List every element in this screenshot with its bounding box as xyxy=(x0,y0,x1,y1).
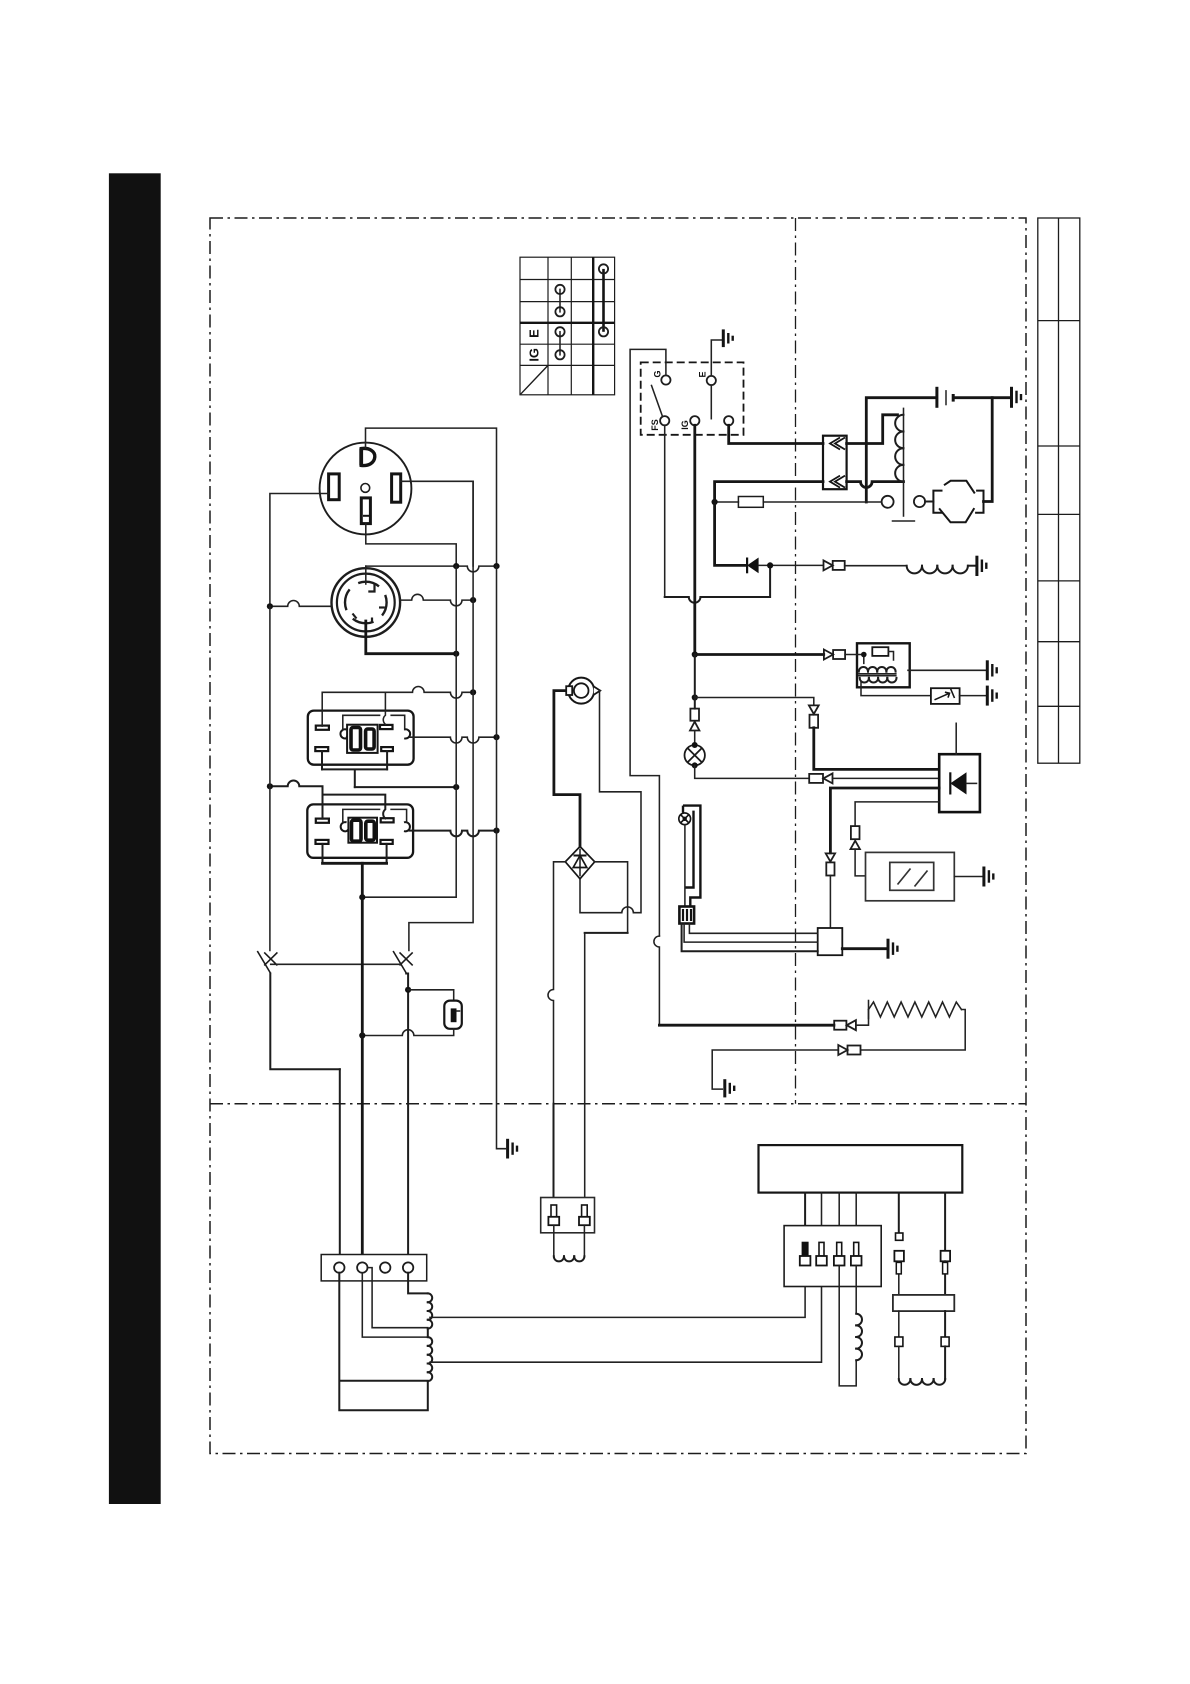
wire battery to ground xyxy=(955,396,1010,399)
dynamo MG (brush motor) xyxy=(568,678,594,704)
R2 internal test loop xyxy=(343,809,407,822)
receptacle J1 (120/240V 4-prong) body xyxy=(320,443,412,535)
IG vertical to lamp connector xyxy=(694,655,696,709)
E internal stub xyxy=(710,385,712,419)
wire connector to CDI xyxy=(833,777,940,779)
connector pins xyxy=(800,1242,862,1265)
terminal FS xyxy=(660,416,669,425)
ground G2 (battery) xyxy=(1012,387,1022,408)
R1 bottom bus and drop xyxy=(322,769,387,787)
table contact link col4 rows1-4 (thick) xyxy=(602,269,605,332)
R1 bottom-left T xyxy=(315,747,328,769)
svg-text:IG: IG xyxy=(527,348,542,362)
R2 top-left slot xyxy=(316,819,329,823)
junction dot J2 right to trunk xyxy=(470,597,476,603)
4P connector box xyxy=(784,1226,881,1287)
wire TB1-2 to stator tap xyxy=(362,1273,428,1337)
bullet connector (CDI exciter lead) xyxy=(824,650,845,660)
wire diode box to ground xyxy=(960,695,986,697)
bridge rectifier BR1 xyxy=(565,847,594,879)
junction dot diode output xyxy=(767,562,773,568)
ground G6 (diode box) xyxy=(987,686,996,706)
starter motor M xyxy=(933,481,983,522)
R2 bottom-right T xyxy=(381,840,393,863)
wire gauge to ground xyxy=(954,876,982,878)
oil level switch body xyxy=(683,806,700,907)
junction dot J2 bottom xyxy=(453,651,459,657)
receptacle J2 (twist lock) outer rings xyxy=(332,568,401,637)
J1 pilot hole xyxy=(361,484,370,493)
inline connector (box + triangle left) xyxy=(809,773,832,783)
R2 top-right slot xyxy=(381,818,394,822)
wire CB1 out (thick L) xyxy=(270,974,340,1070)
stator output tap lower (long) xyxy=(430,1266,822,1363)
wire E to ground xyxy=(711,340,721,376)
table contact link col2 rows4-5 xyxy=(559,332,561,355)
ground G1 (key switch) xyxy=(723,329,732,347)
wire R1 top feed line (hops) xyxy=(322,687,473,727)
junction dot trunk A to R2 trunk xyxy=(359,894,365,900)
terminal IG xyxy=(690,416,699,425)
wire coil to ground xyxy=(968,565,975,567)
J2 contact hooks xyxy=(353,584,385,622)
page margin black sidebar xyxy=(109,173,161,1504)
terminal G xyxy=(661,375,670,384)
R1 left hook xyxy=(340,729,347,738)
switch blade G-FS xyxy=(652,386,663,416)
fuse F1 xyxy=(738,497,763,508)
wire connector to lamp xyxy=(694,731,696,745)
wire module to ground upper xyxy=(908,669,985,671)
thermal breaker block xyxy=(893,1295,954,1311)
inline connector (triangle down + box) on oil interlock xyxy=(826,853,835,875)
wire connector down to interlock junction box xyxy=(829,876,831,929)
bullet connector (triangle-box) on charge coil lead xyxy=(824,560,845,570)
R2 trunk down (x=362) xyxy=(361,863,364,1262)
wire R1 drop to trunk xyxy=(355,786,456,788)
J1 left slot xyxy=(329,474,340,500)
J2 inner contact ring (segmented) xyxy=(345,582,387,624)
trunk wire B (x=473) to breaker CB2 xyxy=(409,481,473,950)
frame: vertical dash-dot partition line xyxy=(795,218,797,1104)
reset button SW2 xyxy=(444,1001,462,1029)
diode D1 xyxy=(747,558,759,574)
wire CDI sense to oil gauge lead xyxy=(855,802,939,826)
inline connector (triangle down + box) xyxy=(809,705,819,727)
terminal B (unlabeled) xyxy=(724,416,733,425)
wire rectifier right output to 2P connector xyxy=(595,862,628,933)
sub winding on pin4 lead xyxy=(855,1266,857,1314)
wire J1 bottom slot xyxy=(366,524,456,567)
connector block (double chevron) xyxy=(823,436,847,490)
wire J2 left pin xyxy=(270,601,332,607)
svg-text:IG: IG xyxy=(680,420,690,430)
breaker tie line xyxy=(271,963,401,965)
module feed drop xyxy=(845,655,864,664)
R2 right hook xyxy=(404,822,410,831)
ground G8 (junction box) xyxy=(888,939,897,959)
GFCI receptacle R2 body xyxy=(307,804,413,857)
wire IG to CDI feed connector (thick) xyxy=(695,653,824,656)
wire TB1-4 to stator top xyxy=(408,1273,428,1294)
switch position table grid xyxy=(520,257,615,395)
breaker outputs xyxy=(898,1311,900,1337)
R1 contact block xyxy=(347,725,378,753)
ignition exciter module box xyxy=(857,643,910,687)
battery BAT xyxy=(937,387,953,408)
oil level gauge box xyxy=(866,852,955,900)
junction dot J2 left xyxy=(267,603,273,609)
R1 top-center feed (hops internal loop) xyxy=(383,692,385,724)
wire diode to connector xyxy=(759,564,823,566)
legend table (right side, 7 rows x 2 cols) xyxy=(1038,218,1080,763)
switch table diagonal cell xyxy=(521,366,548,394)
switch table thick column line xyxy=(592,257,594,395)
wire FS down and right to diode junction xyxy=(664,425,666,597)
wire chevron bottom to coil base (hop over battery lead) xyxy=(847,482,904,488)
key switch SW1 dashed outline xyxy=(641,362,744,434)
oil switch float screw xyxy=(679,813,691,825)
diode box D2 xyxy=(931,688,960,704)
R2 right hook out thick (hops) xyxy=(410,831,497,837)
J1 bottom slot xyxy=(361,498,370,524)
breaker CB2 xyxy=(393,951,413,974)
wire battery row left xyxy=(866,398,935,502)
module primary resistor xyxy=(872,647,888,656)
J1 right slot xyxy=(392,474,401,502)
junction dot button return xyxy=(359,1032,365,1038)
oil switch junction box xyxy=(818,928,843,955)
wire chevron-lower feed down to diode row xyxy=(715,482,823,566)
inline connector (box + triangle up) on gauge lead xyxy=(851,826,860,849)
wire to reset button xyxy=(408,990,454,1001)
junction dot fuse branch xyxy=(712,499,718,505)
spark gap electrode circles xyxy=(882,496,894,508)
stator output tap upper (long) xyxy=(430,1266,805,1318)
terminal strip TB1 xyxy=(321,1255,427,1281)
ground G7 (gauge) xyxy=(984,867,993,887)
wire rectifier left output (hop) to 2P connector xyxy=(548,862,565,1104)
trunk wire C (x=496 ground trunk) xyxy=(497,566,506,1149)
CDI internal diode xyxy=(949,772,951,794)
R1 bottom-right T xyxy=(381,747,393,769)
svg-text:G: G xyxy=(653,370,663,377)
R2 left hook xyxy=(341,822,349,831)
wire dynamo left to rectifier top xyxy=(554,691,580,846)
CDI antenna stub xyxy=(955,723,957,754)
ground G4 (panel ground) xyxy=(508,1139,517,1159)
charging coil xyxy=(553,1225,555,1256)
inline connector (box + triangle up) xyxy=(690,709,699,731)
resistor R (heater zigzag) xyxy=(868,1001,870,1019)
wire terminal B down-right to connector (thick) xyxy=(729,425,823,443)
ground G9 (resistor return) xyxy=(725,1079,734,1097)
wire TB1-2 aux tap xyxy=(368,1268,428,1328)
wire lamp to CDI sense xyxy=(695,765,809,778)
left trunk (x=270) down to breaker CB1 xyxy=(269,606,271,950)
module core lines xyxy=(859,673,896,675)
GFCI receptacle R1 body xyxy=(308,711,414,765)
ignition coil primary winding xyxy=(895,415,903,482)
wire J1 ground slot up and right xyxy=(366,428,497,566)
bullet connector (triangle right + box) return xyxy=(838,1045,860,1055)
wire IG branch to trigger lead xyxy=(695,698,814,705)
J1 ground D-slot xyxy=(361,448,375,465)
wire pin3 down and U to pin4 xyxy=(839,1266,856,1386)
table contact link col2 rows2-3 xyxy=(559,289,561,311)
CDI unit box xyxy=(939,754,980,812)
junction dots bus top xyxy=(453,563,459,569)
wire R1 right hook out (hops) xyxy=(410,737,497,743)
generator stator winding xyxy=(428,1293,432,1381)
junction dot R2 right xyxy=(493,828,499,834)
wire CB2 out down xyxy=(406,974,408,1263)
wire J2 right pin (hops) xyxy=(400,594,473,606)
R2 contact block xyxy=(348,818,377,843)
wire TB1-1 to stator bottom loop xyxy=(339,1273,428,1411)
pilot lamp LP1 xyxy=(685,745,705,765)
IG junction dots xyxy=(692,651,698,657)
junction dot R1 feed xyxy=(470,689,476,695)
R2 bottom bus xyxy=(323,862,387,865)
charge coil L1 xyxy=(907,566,968,574)
ground G5 (module) xyxy=(987,660,996,680)
wire trigger lead down to CDI (thick) xyxy=(814,728,939,770)
oil switch leads to junction box xyxy=(689,924,817,934)
wire IG down (thick) xyxy=(693,425,696,654)
trunk wire A (x=456) xyxy=(362,566,456,897)
R1 top-left slot xyxy=(316,726,329,730)
svg-text:FS: FS xyxy=(650,419,660,431)
ground G3 (charge coil) xyxy=(977,556,986,576)
wire module lower lead to rectifier diode box xyxy=(861,682,931,696)
bullet connector (box + triangle left) resistor feed xyxy=(834,1020,856,1030)
ignition coil core / spark plug line xyxy=(903,408,905,516)
junction dot R1 right xyxy=(493,734,499,740)
wire connector to oil level gauge xyxy=(855,849,865,876)
wire return to ground xyxy=(712,1050,838,1089)
R2 top feed stepped (from left bus) xyxy=(270,781,385,819)
wire G route hop xyxy=(654,936,660,1025)
R1 top-right slot xyxy=(380,725,393,729)
wire starter to battery drop xyxy=(984,398,993,502)
breaker CB1 xyxy=(257,951,277,974)
frame: outer dash-dot boundary of generator xyxy=(210,218,1026,1454)
R2 bottom-left T xyxy=(316,840,329,863)
oil switch stem xyxy=(684,825,686,907)
wire chevron top to ignition coil primary xyxy=(847,415,898,444)
control unit leads xyxy=(804,1193,806,1243)
module upper winding xyxy=(859,667,896,672)
wire G route to resistor connector xyxy=(659,1024,834,1027)
wire CDI charge return (thick) xyxy=(830,788,939,853)
left feeder down to terminal strip (x=340) xyxy=(339,1069,341,1262)
wire connector to resistor xyxy=(856,1010,869,1026)
terminal E xyxy=(707,376,716,385)
junction dot R1 drop xyxy=(453,784,459,790)
wire fuse row xyxy=(715,501,739,503)
oil switch connector (hatched) xyxy=(679,907,694,924)
wire J1 left slot xyxy=(270,494,329,607)
wire button bottom to R2 trunk (hop) xyxy=(362,1029,453,1036)
2P connector box (charging leads) xyxy=(541,1198,595,1233)
R1 right hook xyxy=(404,729,410,738)
wire resistor return xyxy=(861,1010,965,1051)
R1 internal test loop xyxy=(343,715,405,729)
svg-text:E: E xyxy=(527,329,542,338)
control unit box xyxy=(759,1145,963,1193)
frame: horizontal dash-dot partition line xyxy=(210,1103,1026,1105)
wire G up-left then down (to resistor circuit) xyxy=(630,349,666,936)
wire J1 right slot xyxy=(401,481,473,566)
junction dot button branch xyxy=(405,987,411,993)
wire bus top (J2 top to trunks) xyxy=(366,566,497,572)
field coil bottom xyxy=(899,1379,945,1385)
wire J2 bottom pin (thick) xyxy=(366,621,456,654)
junction dot R2 feed xyxy=(267,783,273,789)
wire J2 top pin xyxy=(365,566,367,584)
wire junction box to ground (thick) xyxy=(842,947,885,950)
svg-text:E: E xyxy=(698,371,708,377)
wire spark gap to starter xyxy=(925,501,933,503)
wire dynamo right to rectifier bottom (hop) xyxy=(580,691,641,913)
switch table thick row line xyxy=(520,322,615,324)
breaker lead caps xyxy=(896,1233,903,1240)
wire to charge coil xyxy=(845,565,907,567)
module lower winding xyxy=(860,678,897,683)
